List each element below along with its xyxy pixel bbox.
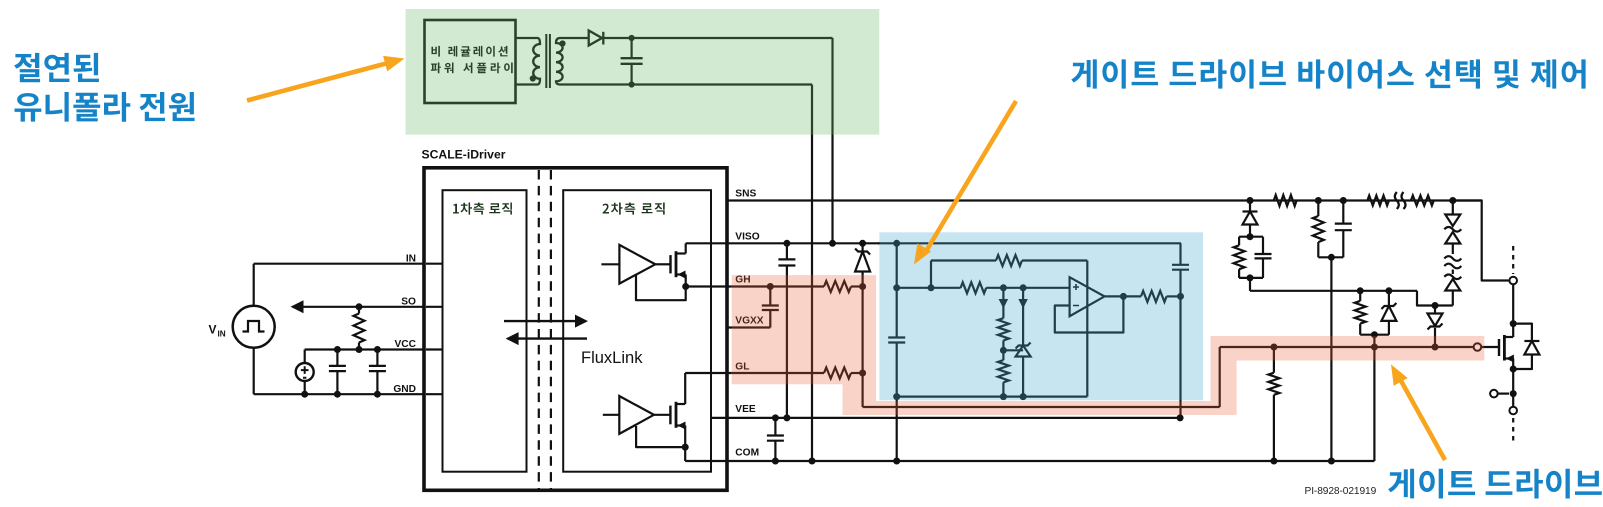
label gate drive bias select 게이트 드라이브 바이어스 선택 및 제어 <box>1071 59 1585 88</box>
node output rail <box>1177 293 1184 300</box>
wire R3C2 join <box>1318 256 1343 258</box>
node SNS TVS <box>1449 197 1456 204</box>
node output <box>1120 293 1127 300</box>
driver buffer U-low <box>603 414 620 416</box>
node at VEE <box>1177 414 1184 421</box>
resistor R-GL <box>824 368 851 379</box>
wire VCC <box>305 348 424 350</box>
node GL net <box>859 370 866 377</box>
label isolated unipolar supply line2 유니폴라 전원 <box>15 92 195 122</box>
node supply+ junction <box>629 35 635 41</box>
wire IN <box>254 263 424 265</box>
capacitor C-reg left <box>888 336 905 338</box>
wire GL <box>685 372 732 374</box>
wire gate to COM end <box>1373 347 1375 461</box>
wire V1 to VCC <box>304 350 306 364</box>
wire diode to VISO drop <box>603 37 832 39</box>
SO arrowhead <box>291 300 304 313</box>
svg-text:V: V <box>209 323 217 337</box>
wire Q-low feedback <box>636 426 685 447</box>
kelvin terminal <box>1498 393 1509 395</box>
wire feedback down <box>1086 261 1088 397</box>
green highlight region (isolated supply) <box>406 9 880 135</box>
node source <box>1510 366 1517 373</box>
TVS chain bidirectional <box>1452 201 1454 215</box>
node gate RD <box>1357 287 1364 294</box>
dashed bus below <box>1512 418 1514 442</box>
wire RD to gate <box>1373 335 1375 347</box>
resistor R-sns4 series <box>1367 196 1389 206</box>
node at COM <box>893 458 900 465</box>
wire gate path down <box>861 373 863 407</box>
node supply+ at VISO <box>829 240 836 247</box>
wire VIN top to IN <box>253 264 255 306</box>
secondary logic box 2차측 로직 <box>563 190 711 472</box>
transformer T1 secondary phase dot <box>559 40 565 46</box>
wire zener branch <box>1022 309 1024 346</box>
svg-text:SNS: SNS <box>735 189 756 200</box>
svg-text:IN: IN <box>218 330 226 339</box>
RC block bottom <box>1239 277 1263 279</box>
node SNS D2 <box>1247 197 1254 204</box>
svg-text:PI-8928-021919: PI-8928-021919 <box>1305 486 1377 497</box>
wire SO <box>297 306 424 308</box>
resistor R-sns2 on SNS <box>1274 195 1297 206</box>
wire secondary bottom rail <box>560 83 812 85</box>
wire V1 to GND <box>304 381 306 394</box>
wire noninv input line <box>897 287 961 289</box>
wire SNS corner to drain <box>1453 201 1509 281</box>
node Q-low source junction <box>682 444 689 451</box>
diode D2 <box>1249 201 1251 212</box>
body diode Dbody <box>1513 324 1532 341</box>
resistor R-GH <box>824 281 851 292</box>
wire COM <box>685 460 1374 462</box>
wire gate path rise <box>1219 347 1221 407</box>
node feedback tap <box>928 284 935 291</box>
capacitor C-VCC1 <box>336 350 338 366</box>
pin stub SO <box>426 306 443 308</box>
FluxLink left arrow <box>517 337 587 339</box>
wire Q-high feedback <box>636 275 686 301</box>
node divider top <box>1000 284 1007 291</box>
node SNS C2 <box>1340 197 1347 204</box>
wire GH <box>686 285 732 287</box>
dashed bus above <box>1512 246 1514 274</box>
wire clamp step <box>1417 291 1453 306</box>
wire VISO blue segment <box>878 242 1181 244</box>
PSU label line2 파워 서플라이 <box>431 63 513 74</box>
node drain diode <box>1510 320 1517 327</box>
node GND junctions <box>301 391 308 398</box>
resistor R-div1 <box>1002 309 1004 319</box>
wire GH/GL merge vertical <box>861 287 863 374</box>
node supply- junction <box>629 81 635 87</box>
capacitor C-sns2 <box>1342 201 1344 224</box>
isolation barrier dashed lines <box>538 170 540 489</box>
resistor R-out <box>1141 291 1167 302</box>
TVS chain lower zener <box>1452 270 1454 275</box>
node RD join <box>1371 331 1378 338</box>
node kelvin <box>1510 390 1517 397</box>
node R3C2 <box>1328 254 1335 261</box>
wire VEE <box>711 417 1180 419</box>
node GH source junction <box>682 283 689 290</box>
zener DZ-gate2 (to gate line) <box>1434 306 1436 314</box>
MOSFET Q-low <box>654 414 671 416</box>
pin stub IN <box>426 263 443 265</box>
arrow annotation to PSU <box>247 63 389 101</box>
wire to source terminal <box>1512 394 1514 407</box>
wire source <box>1512 369 1514 394</box>
node GH-VGXX <box>767 283 774 290</box>
blue highlight box (bias select/control) <box>879 232 1203 400</box>
resistor R-SO <box>358 307 360 314</box>
resistor R-fb <box>996 255 1022 266</box>
wire output down to VEE <box>1179 296 1181 418</box>
VIN pulse symbol <box>243 321 265 332</box>
resistor R-sns5 series <box>1411 196 1434 206</box>
TVS break symbol <box>1444 256 1461 268</box>
node RC bottom <box>1247 274 1254 281</box>
zener DZ-ref <box>1016 346 1031 357</box>
zener DZ-GH (VISO to GH) <box>859 240 866 247</box>
label isolated unipolar supply line1 절연된 <box>14 53 99 82</box>
capacitor C-VCC2 <box>376 350 378 366</box>
svg-text:SCALE-iDriver: SCALE-iDriver <box>422 148 506 162</box>
transformer T1 secondary winding <box>556 38 563 85</box>
op-amp U1 <box>1070 277 1105 316</box>
node R3C2 at COM <box>1328 458 1335 465</box>
node bottom rail junctions <box>893 393 900 400</box>
node clamp join <box>1432 302 1439 309</box>
label gate drive 게이트 드라이브 <box>1388 469 1602 499</box>
capacitor C1 supply filter <box>630 38 632 58</box>
transformer T1 primary stubs <box>516 37 538 39</box>
svg-text:COM: COM <box>735 447 759 458</box>
wire clamp bus <box>1249 278 1251 291</box>
wire R3C2 to COM <box>1330 257 1332 461</box>
wire supply- down to COM <box>811 85 813 462</box>
wire regulator bottom rail <box>897 396 1088 398</box>
wire VGXX <box>727 326 770 328</box>
capacitor C-VEE (VEE to COM) <box>772 414 779 421</box>
node R-pulldown at COM <box>1270 458 1277 465</box>
aux source V1 circle <box>296 363 314 381</box>
node VISO into regulator <box>893 240 900 247</box>
gate terminal circle <box>1474 343 1482 351</box>
capacitor C-VGXX <box>762 304 779 306</box>
node divider mid <box>1000 347 1007 354</box>
wire gate path horizontal <box>863 406 1220 408</box>
wire divider to zener <box>1003 349 1023 351</box>
MOSFET Q-high <box>655 263 670 265</box>
capacitor C-sns1 <box>1262 237 1264 254</box>
source terminal <box>1509 407 1517 415</box>
PSU label line1 비 레귤레이션 <box>432 46 508 57</box>
wire feedback up <box>930 261 932 288</box>
MOSFET M1 channel <box>1503 335 1506 361</box>
wire op-amp output <box>1105 295 1142 297</box>
arrow annotation to bias box <box>925 101 1016 253</box>
transformer T1 primary phase dot <box>530 75 536 81</box>
arrow annotation to gate line <box>1400 379 1445 460</box>
wire GND <box>254 393 424 395</box>
wire SNS <box>727 199 1482 201</box>
node RD at gate <box>1371 344 1378 351</box>
current arrow right <box>1022 288 1024 309</box>
wire gate drive line <box>1220 346 1474 348</box>
break symbol SNS <box>1395 192 1406 209</box>
wire secondary top to diode <box>560 37 589 39</box>
node supply- at COM <box>809 458 816 465</box>
resistor R-sns3 <box>1317 201 1319 217</box>
capacitor C-VISO (VISO to VEE) <box>783 240 790 247</box>
primary logic box 1차측 로직 <box>443 190 527 472</box>
source VIN circle <box>233 306 275 348</box>
node GH net <box>859 283 866 290</box>
node noninv input <box>893 284 900 291</box>
transformer T1 primary winding <box>533 38 540 85</box>
node SO junction <box>356 303 363 310</box>
svg-text:VEE: VEE <box>735 404 756 415</box>
zener DZ-gate1 <box>1388 291 1390 306</box>
node D2-RC <box>1247 233 1254 240</box>
wire Q-low source to COM <box>684 447 686 461</box>
resistor R-sns1 <box>1238 237 1240 246</box>
capacitor C-out <box>1179 243 1181 264</box>
pin stub GND <box>426 393 443 395</box>
RC block top <box>1239 236 1263 238</box>
wire supply+ down to VISO <box>831 38 833 243</box>
node VCC junctions <box>334 346 341 353</box>
resistor R-div2 <box>998 360 1009 382</box>
wire regulator left vertical <box>896 243 898 337</box>
transformer T1 core <box>545 34 547 88</box>
node SNS R3 <box>1315 197 1322 204</box>
node zener branch top <box>1020 284 1027 291</box>
FluxLink right arrow <box>504 320 577 322</box>
pin stub VCC <box>426 348 443 350</box>
resistor R-pulldown <box>1270 344 1277 351</box>
current arrow left <box>1002 288 1004 309</box>
drain terminal <box>1509 277 1517 285</box>
pink highlight gate drive path <box>732 275 1485 415</box>
IC outer box <box>424 168 727 491</box>
svg-text:FluxLink: FluxLink <box>581 349 643 367</box>
svg-text:VISO: VISO <box>735 231 759 242</box>
resistor R-gate1 <box>1359 291 1361 301</box>
resistor R-in <box>961 282 987 293</box>
wire RD join <box>1360 334 1389 336</box>
node DZ-gate2 at gate <box>1432 344 1439 351</box>
driver buffer U-high <box>601 263 619 265</box>
wire drain <box>1512 285 1514 338</box>
wire VIN bottom to GND <box>253 348 255 394</box>
wire regulator ground to COM <box>896 397 898 461</box>
wire inv feedback box <box>1055 296 1124 332</box>
unregulated PSU box <box>425 20 516 103</box>
wire VISO <box>686 242 880 244</box>
diode D1 rectifier <box>589 31 602 46</box>
